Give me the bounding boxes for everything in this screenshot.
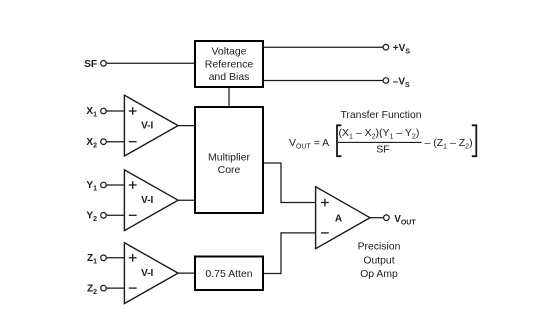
svg-text:X2: X2 <box>86 137 97 150</box>
wire op-amp output <box>370 217 384 219</box>
wire -Vs <box>264 80 383 82</box>
wire Z2 <box>106 287 124 289</box>
wire X V-I to multiplier core <box>178 125 195 127</box>
svg-text:SF: SF <box>376 144 389 156</box>
svg-text:Z2: Z2 <box>87 283 97 296</box>
svg-text:Voltage: Voltage <box>211 46 246 58</box>
svg-text:VOUT = A: VOUT = A <box>289 137 329 151</box>
svg-text:A: A <box>335 214 342 225</box>
svg-text:–VS: –VS <box>393 76 410 89</box>
svg-text:Z1: Z1 <box>87 253 97 266</box>
wire Y V-I to multiplier core <box>178 199 195 201</box>
svg-text:Precision: Precision <box>358 242 401 253</box>
svg-text:V-I: V-I <box>141 121 153 132</box>
wire X1 <box>106 110 124 112</box>
terminal Z1 <box>101 255 107 261</box>
svg-text:X1: X1 <box>86 106 97 119</box>
svg-text:Output: Output <box>363 255 394 266</box>
svg-text:SF: SF <box>84 59 97 70</box>
terminal Z2 <box>101 285 107 291</box>
wire Z1 <box>106 257 124 259</box>
wire X2 <box>106 141 124 143</box>
svg-text:Y1: Y1 <box>86 180 97 193</box>
svg-text:Y2: Y2 <box>86 211 97 224</box>
svg-text:V-I: V-I <box>141 268 153 279</box>
wire Z V-I to attenuator <box>178 272 195 274</box>
svg-text:and Bias: and Bias <box>209 71 250 83</box>
wire attenuator to op-amp - <box>264 233 316 274</box>
block Multiplier Core <box>195 107 263 213</box>
wire voltage reference to multiplier core <box>228 88 230 106</box>
svg-text:Core: Core <box>218 164 241 176</box>
svg-text:V-I: V-I <box>141 195 153 206</box>
svg-text:VOUT: VOUT <box>394 214 416 227</box>
label Precision Output Op Amp <box>358 242 401 281</box>
op-amp A precision output <box>316 187 370 249</box>
terminal Y1 <box>101 182 107 188</box>
wire Y1 <box>106 184 124 186</box>
wire +Vs <box>264 46 383 48</box>
wire multiplier core to op-amp + <box>264 163 316 203</box>
svg-text:– (Z1 – Z2): – (Z1 – Z2) <box>425 137 473 151</box>
wire Y2 <box>106 214 124 216</box>
terminal -Vs <box>383 78 389 84</box>
svg-text:0.75 Atten: 0.75 Atten <box>205 268 252 280</box>
op-amp Z V-I <box>124 243 178 304</box>
block Voltage Reference and Bias <box>195 41 263 87</box>
terminal +Vs <box>383 44 389 50</box>
svg-text:Multiplier: Multiplier <box>208 152 251 164</box>
svg-text:Reference: Reference <box>205 59 254 71</box>
terminal Y2 <box>101 213 107 219</box>
svg-text:+VS: +VS <box>393 43 411 56</box>
formula Vout = A [(X1-X2)(Y1-Y2)/SF - (Z1-Z2)] <box>289 125 476 156</box>
terminal X1 <box>101 108 107 114</box>
terminal Vout <box>384 215 390 221</box>
svg-text:Op Amp: Op Amp <box>360 269 398 280</box>
op-amp Y V-I <box>124 170 178 231</box>
block 0.75 Atten <box>195 257 263 291</box>
terminal X2 <box>101 139 107 145</box>
svg-text:(X1 – X2)(Y1 – Y2): (X1 – X2)(Y1 – Y2) <box>339 127 420 141</box>
svg-text:Transfer Function: Transfer Function <box>340 110 421 121</box>
terminal SF <box>101 61 107 67</box>
op-amp X V-I <box>124 95 178 156</box>
wire SF to voltage reference <box>106 62 194 64</box>
